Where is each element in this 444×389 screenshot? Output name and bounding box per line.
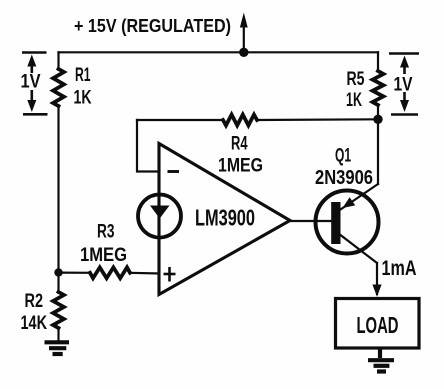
svg-text:R3: R3 [97,221,115,243]
wire op-amp output to Q1 base [290,220,332,222]
wire R4 right segment to node B [257,118,378,121]
op-amp minus sign [168,170,180,173]
svg-text:1MEG: 1MEG [80,244,127,266]
wire R3 to plus input [130,272,159,275]
wire node A to R2 [57,272,59,292]
wire top supply rail [59,51,379,53]
svg-text:1mA: 1mA [382,256,417,280]
svg-text:LOAD: LOAD [357,312,399,338]
op-amp current source arrow [150,206,170,219]
wire collector diagonal Q1 [341,235,378,263]
wire left rail top (rail to R1) [57,52,59,69]
measure 1V right [389,54,419,115]
op-amp U1 LM3900 triangle [159,144,290,295]
wire R1 bottom to node A [57,106,59,272]
ground under LOAD [368,348,394,372]
svg-text:R2: R2 [25,290,44,312]
wire R4 left segment [137,119,223,121]
svg-text:1V: 1V [394,75,413,96]
svg-text:1K: 1K [346,89,362,111]
svg-text:R4: R4 [231,133,248,155]
transistor Q1 circle [316,191,379,254]
svg-text:1K: 1K [74,87,92,109]
collector arrowhead into LOAD [372,285,381,297]
svg-text:1MEG: 1MEG [218,155,263,177]
LOAD box [336,299,420,349]
transistor Q1 base bar [331,202,340,244]
measure 1V left [22,53,48,115]
supply arrowhead [240,13,248,28]
svg-text:LM3900: LM3900 [195,205,255,231]
resistor R1 [53,69,64,106]
resistor R5 [373,71,384,105]
svg-text:14K: 14K [21,312,48,334]
node A dot (R1/R2/R3) [54,268,62,276]
svg-text:R1: R1 [75,64,91,86]
svg-text:2N3906: 2N3906 [315,166,373,189]
ground under R2 [45,342,70,354]
node B dot (R5/R4/emitter) [373,115,382,124]
wire rail to R5 [377,52,379,71]
wire supply arrow stem [243,26,245,52]
svg-text:Q1: Q1 [335,145,351,167]
svg-text:+ 15V (REGULATED): + 15V (REGULATED) [74,15,231,36]
op-amp current source circle [138,195,181,238]
transistor Q1 emitter arrow [343,197,356,208]
resistor R2 [53,292,64,328]
resistor R3 [90,267,130,278]
svg-text:1V: 1V [21,72,41,93]
wire collector down to LOAD [376,263,378,294]
wire node B down to emitter kink [377,119,379,184]
wire R2 to ground [57,328,59,340]
wire emitter diagonal Q1 [341,184,379,210]
resistor R4 [223,115,257,126]
wire R5 bottom to node B [377,105,379,119]
wire feedback minus input [137,120,159,172]
wire node A to R3 [59,272,91,274]
op-amp plus sign [164,267,176,282]
svg-text:R5: R5 [347,68,365,90]
node dot supply [239,48,248,57]
